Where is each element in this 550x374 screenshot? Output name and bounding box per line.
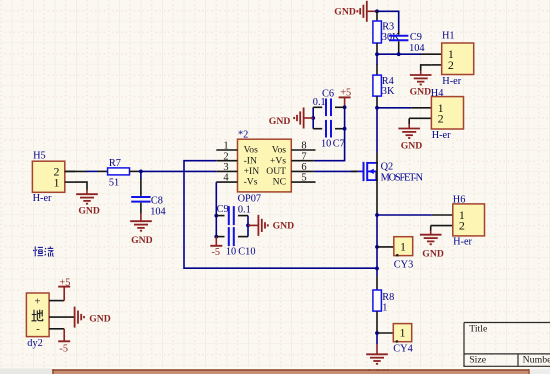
wire R3 junction to R4 — [376, 54, 378, 65]
svg-text:C7: C7 — [333, 139, 345, 150]
svg-text:10: 10 — [226, 247, 236, 258]
node: C7 right rail junction — [343, 127, 347, 131]
svg-text:GND: GND — [401, 140, 423, 151]
resistor R7 — [65, 158, 141, 189]
svg-text:H-er: H-er — [453, 236, 472, 247]
wire +Vs rail down to OP07 pin 7 — [314, 129, 345, 161]
svg-text:3: 3 — [223, 162, 228, 173]
wire source junction to H6 pin 1 — [377, 214, 432, 216]
capacitor C9 (104) near R3 — [389, 31, 425, 54]
capacitor C9 (0.1) below OP07 — [216, 204, 250, 225]
wire OP07 pin 2 feedback loop to source bus — [184, 161, 377, 269]
wire R4 bottom to H4 pin 1 — [377, 107, 411, 109]
connector H5 — [32, 150, 75, 204]
svg-text:Number: Number — [523, 354, 550, 365]
dy2 pin 3 to -5 — [49, 329, 70, 355]
svg-text:H6: H6 — [453, 194, 466, 205]
Q2 source pin — [376, 180, 378, 215]
OP07 pin 8 Vos — [272, 141, 316, 156]
svg-text:dy2: dy2 — [27, 338, 42, 349]
svg-text:2: 2 — [448, 58, 454, 72]
svg-text:H-er: H-er — [33, 193, 52, 204]
svg-text:MOSFET-N: MOSFET-N — [381, 172, 424, 183]
svg-text:C8: C8 — [151, 195, 163, 206]
node: R3 bottom junction — [375, 52, 379, 56]
node: caps C9/C10 bottom-left junction — [214, 235, 218, 239]
connector dy2 (power input) — [26, 293, 49, 337]
wire C6/C7 right rail — [344, 107, 346, 128]
svg-text:1: 1 — [382, 302, 387, 313]
ground below C8 — [130, 213, 152, 246]
connector H1 — [421, 31, 474, 88]
op-amp U? OP07 body — [238, 130, 292, 205]
capacitor C10 (10) — [216, 227, 255, 257]
svg-text:C9: C9 — [217, 204, 229, 215]
ground below H5 — [76, 190, 100, 217]
svg-text:CY3: CY3 — [394, 260, 413, 271]
svg-text:104: 104 — [409, 43, 424, 54]
ground below H6 — [420, 231, 444, 260]
resistor R4 — [373, 65, 395, 108]
wire R8 bottom to ground — [376, 333, 378, 344]
title block — [464, 323, 550, 368]
svg-text:8: 8 — [301, 141, 306, 152]
node: R8 bottom junction to CY4 — [375, 331, 379, 335]
dy2 pin 2 to GND (sideways) — [49, 307, 111, 328]
svg-text:5: 5 — [301, 173, 306, 184]
svg-text:NC: NC — [273, 177, 286, 188]
node: top junction of R3 / C9 — [375, 9, 379, 13]
svg-text:+: + — [35, 296, 41, 307]
Q2 drain-source line — [376, 162, 378, 181]
wire R4 junction down to Q2 drain — [376, 108, 378, 153]
OP07 pin 7 +Vs — [270, 151, 314, 166]
power port GND left of C6/C7 (sideways) — [269, 108, 313, 129]
transistor Q2 MOSFET-N — [351, 162, 424, 184]
wire OP07 pin 4 down to -5 rail — [215, 182, 217, 216]
svg-text:-5: -5 — [212, 247, 221, 258]
wire H5 pin 2 to R7 — [86, 170, 98, 172]
OP07 pin 1 Vos — [216, 141, 258, 156]
OP07 pin 4 -Vs — [216, 173, 257, 188]
ground at bottom of bus — [366, 344, 389, 374]
svg-text:1: 1 — [400, 326, 406, 340]
svg-text:104: 104 — [150, 206, 165, 217]
OP07 pin 3 +IN — [216, 162, 259, 177]
svg-text:GND: GND — [334, 6, 356, 17]
text label heng-liu (constant current) — [33, 246, 53, 256]
svg-text:2: 2 — [438, 111, 444, 125]
svg-text:GND: GND — [273, 221, 295, 232]
svg-text:0.1: 0.1 — [313, 97, 326, 108]
wire C6/C7 left rail — [312, 107, 314, 128]
OP07 pin 2 -IN — [216, 151, 257, 166]
node: C6/C7 left rail junction — [311, 116, 315, 120]
svg-text:GND: GND — [89, 314, 111, 325]
capacitor C6 (0.1) — [313, 88, 345, 116]
svg-text:Q2: Q2 — [381, 162, 394, 173]
svg-text:3K: 3K — [382, 86, 395, 97]
power port GND right of caps (sideways) — [248, 215, 294, 236]
wire junction to OP07 pin 3 — [141, 170, 216, 172]
node: C9 bottom junction — [397, 52, 401, 56]
svg-text:CY4: CY4 — [393, 344, 412, 355]
node: R4 bottom junction — [375, 106, 379, 110]
svg-text:GND: GND — [422, 249, 444, 260]
svg-text:Vos: Vos — [244, 145, 258, 156]
svg-text:H4: H4 — [431, 88, 444, 99]
node: bus junction to CY3 — [375, 245, 379, 249]
wire caps right rail — [247, 216, 249, 237]
node: caps right rail junction to GND — [246, 224, 250, 228]
svg-text:7: 7 — [301, 151, 306, 162]
OP07 pin 5 NC — [273, 173, 316, 188]
svg-text:0.1: 0.1 — [238, 204, 251, 215]
power port -5 below caps — [210, 237, 222, 258]
wire bus H6 junction down to CY3 junction — [376, 215, 378, 247]
svg-text:C10: C10 — [238, 247, 255, 258]
capacitor C7 (10) — [313, 120, 345, 150]
ground below H1 — [410, 71, 432, 98]
wire R3 bottom to H1 pin 1 — [377, 53, 421, 55]
svg-text:H5: H5 — [33, 150, 46, 161]
svg-text:10: 10 — [321, 139, 331, 150]
node: caps C9/C10 top-left junction — [214, 214, 218, 218]
svg-text:H1: H1 — [442, 31, 455, 42]
dy2 pin 1 to +5 — [49, 277, 70, 300]
svg-text:C9: C9 — [410, 32, 422, 43]
svg-text:*2: *2 — [238, 130, 248, 141]
connector CY3 — [377, 237, 413, 271]
svg-text:2: 2 — [223, 151, 228, 162]
node: R7 / C8 / +IN junction — [139, 170, 143, 174]
svg-text:H-er: H-er — [442, 76, 461, 87]
text di (earth) inside dy2 — [32, 310, 43, 321]
wire H1 pin 2 to ground — [421, 65, 432, 71]
wire H4 pin 2 to ground — [408, 118, 410, 124]
svg-text:-: - — [36, 323, 40, 335]
svg-text:+IN: +IN — [244, 166, 260, 177]
wire OP07 pin 6 to Q2 gate — [314, 170, 357, 172]
svg-text:+Vs: +Vs — [270, 155, 286, 166]
svg-text:-5: -5 — [59, 343, 68, 354]
svg-text:2: 2 — [459, 219, 465, 233]
svg-text:Title: Title — [469, 324, 488, 335]
svg-text:R7: R7 — [109, 158, 121, 169]
capacitor C8 (104) — [131, 171, 165, 217]
wire top junction to C9 top — [377, 11, 399, 31]
svg-text:Vos: Vos — [272, 145, 286, 156]
wire H6 pin 2 to ground — [430, 226, 432, 231]
svg-text:-Vs: -Vs — [244, 177, 258, 188]
svg-text:30K: 30K — [382, 32, 400, 43]
svg-text:6: 6 — [301, 162, 306, 173]
connector H6 — [431, 194, 485, 247]
svg-text:-IN: -IN — [244, 155, 257, 166]
svg-text:4: 4 — [223, 173, 229, 184]
connector CY4 — [377, 324, 413, 355]
sheet bottom margin strips — [0, 367, 550, 374]
svg-text:1: 1 — [223, 141, 228, 152]
svg-text:GND: GND — [410, 87, 432, 98]
svg-text:GND: GND — [78, 205, 100, 216]
svg-text:OUT: OUT — [266, 166, 286, 177]
wire caps left rail — [215, 216, 217, 237]
connector H4 — [409, 88, 463, 141]
node: source junction to H6 — [375, 213, 379, 217]
resistor R8 — [373, 276, 394, 333]
svg-text:Size: Size — [469, 354, 487, 365]
power port +5 (above C6/C7) — [339, 87, 352, 107]
node: feedback loop joins bus — [375, 267, 379, 271]
svg-text:GND: GND — [269, 116, 291, 127]
wire bus down to R8 — [376, 247, 378, 276]
svg-text:51: 51 — [109, 177, 119, 188]
ground below H4 — [398, 124, 422, 151]
svg-text:1: 1 — [400, 240, 406, 254]
Q2 drain pin — [376, 153, 378, 164]
svg-text:+5: +5 — [59, 277, 70, 288]
power port GND (top, sideways) — [334, 1, 377, 22]
node: +5 junction top rail — [343, 105, 347, 109]
resistor R3 — [373, 11, 400, 54]
svg-text:R8: R8 — [382, 292, 394, 303]
svg-text:1: 1 — [54, 176, 60, 190]
wire H5 pin 1 to ground — [75, 182, 87, 190]
svg-text:H-er: H-er — [432, 130, 451, 141]
svg-text:GND: GND — [131, 235, 153, 246]
svg-text:OP07: OP07 — [238, 194, 261, 205]
OP07 pin 6 OUT — [266, 162, 314, 177]
